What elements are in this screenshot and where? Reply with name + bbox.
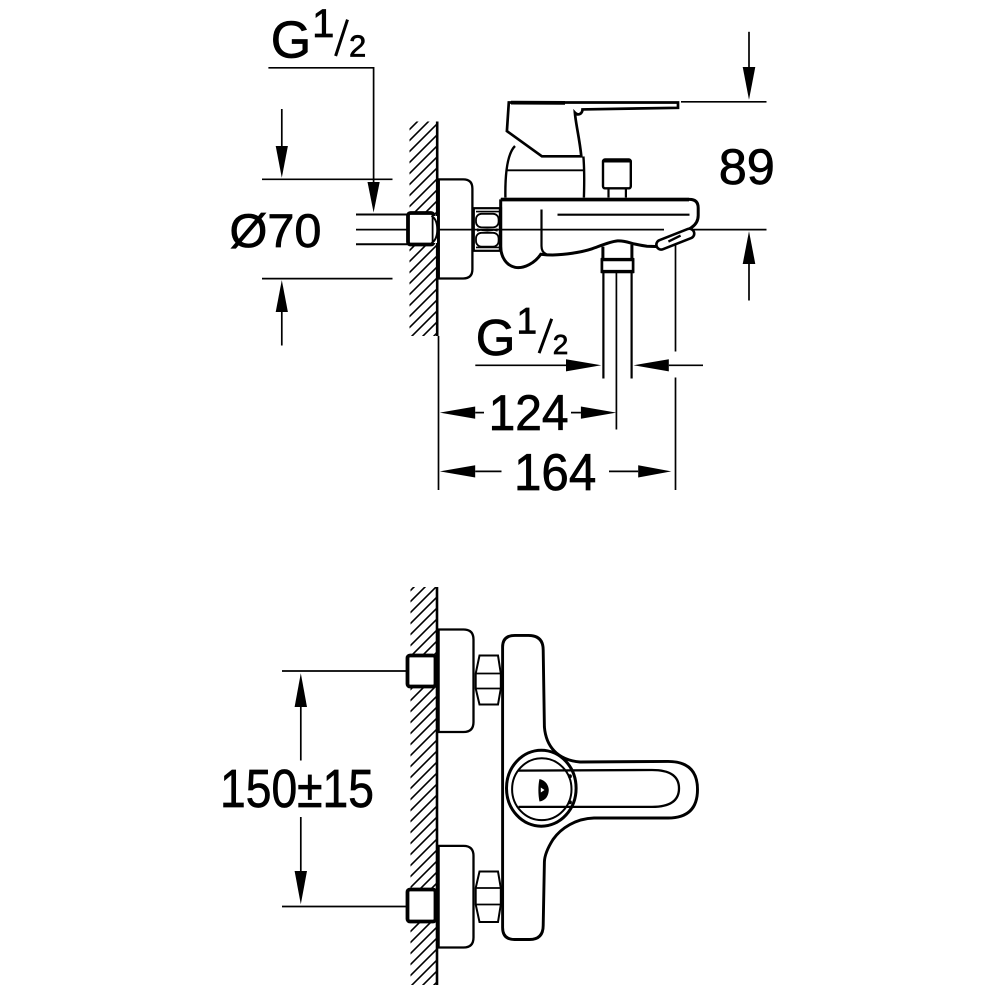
- dimension Ø70 extension lines: [262, 179, 393, 278]
- lever handle (top view): [507, 103, 678, 157]
- svg-text:G: G: [476, 309, 516, 366]
- svg-text:G: G: [271, 11, 311, 69]
- svg-text:150±15: 150±15: [220, 759, 374, 819]
- diverter stem: [609, 188, 626, 197]
- G1/2 leader line (top): [268, 68, 379, 213]
- dimension 150±15 arrows: [295, 673, 307, 904]
- label 164: [514, 444, 596, 502]
- dimension 89 arrows: [743, 32, 756, 301]
- dimension 150±15 reference lines: [282, 671, 408, 907]
- centerline left segment: [356, 229, 408, 231]
- hex nut top (front): [476, 656, 501, 705]
- faucet body + lever arm outline (front): [503, 635, 698, 939]
- label 150±15: [220, 759, 374, 819]
- svg-text:1: 1: [312, 2, 334, 46]
- wall hatch (bottom view): [411, 587, 437, 985]
- label G1/2 (top left): [271, 2, 367, 69]
- wall hatch (top view): [410, 122, 437, 337]
- cap screw dots: [568, 774, 572, 804]
- lever cap outer circle (front): [507, 750, 577, 826]
- aerator spout tip: [656, 229, 694, 250]
- cartridge dome (top view): [505, 146, 584, 198]
- shower hose: [603, 272, 631, 379]
- dimension Ø70 arrows: [276, 109, 288, 346]
- body inner highlight line: [501, 200, 690, 215]
- svg-text:164: 164: [514, 444, 596, 502]
- wall extension line: [438, 336, 440, 490]
- escutcheon top (front): [439, 630, 474, 733]
- diverter knob: [603, 160, 631, 189]
- svg-text:2: 2: [553, 329, 569, 360]
- wall face line (top view): [436, 122, 439, 337]
- S-union square nut bottom (front): [408, 890, 436, 922]
- hex connection nut (top view): [474, 208, 501, 251]
- logo mark on cap: [538, 779, 548, 802]
- hose nipple under body: [603, 245, 632, 259]
- inner lever fork (front): [518, 770, 679, 807]
- hex nut bottom (front): [476, 872, 501, 923]
- S-union square nut top (front): [408, 656, 436, 687]
- dimension 124: [440, 407, 617, 419]
- label Ø70: [230, 204, 322, 257]
- label 89: [719, 138, 775, 195]
- spout extension line: [675, 245, 677, 490]
- supply pipe behind wall: [356, 215, 409, 245]
- label G1/2 (hose): [476, 301, 569, 367]
- hose centre extension line: [615, 272, 617, 430]
- svg-text:2: 2: [349, 29, 366, 64]
- svg-text:89: 89: [719, 138, 775, 195]
- escutcheon flange (top view): [439, 179, 473, 278]
- svg-text:Ø70: Ø70: [230, 204, 322, 257]
- dimension 89 top reference line: [681, 101, 767, 103]
- dimension G1/2 (hose) arrows: [475, 359, 703, 371]
- faucet body (top view): [501, 199, 699, 267]
- wall face line (bottom view): [436, 587, 439, 985]
- svg-text:124: 124: [489, 385, 569, 441]
- union nipple arc at wall: [432, 216, 438, 243]
- centerline / 89-dim lower reference: [438, 229, 767, 231]
- svg-text:1: 1: [517, 301, 538, 342]
- S-union square nut (top view): [408, 213, 434, 245]
- body inner vertical line: [542, 210, 547, 255]
- hose coupling nut: [601, 260, 634, 272]
- escutcheon bottom (front): [439, 846, 474, 948]
- label 124: [489, 385, 569, 441]
- dimension 164: [440, 465, 672, 477]
- lever cap inner circle (front): [512, 758, 571, 820]
